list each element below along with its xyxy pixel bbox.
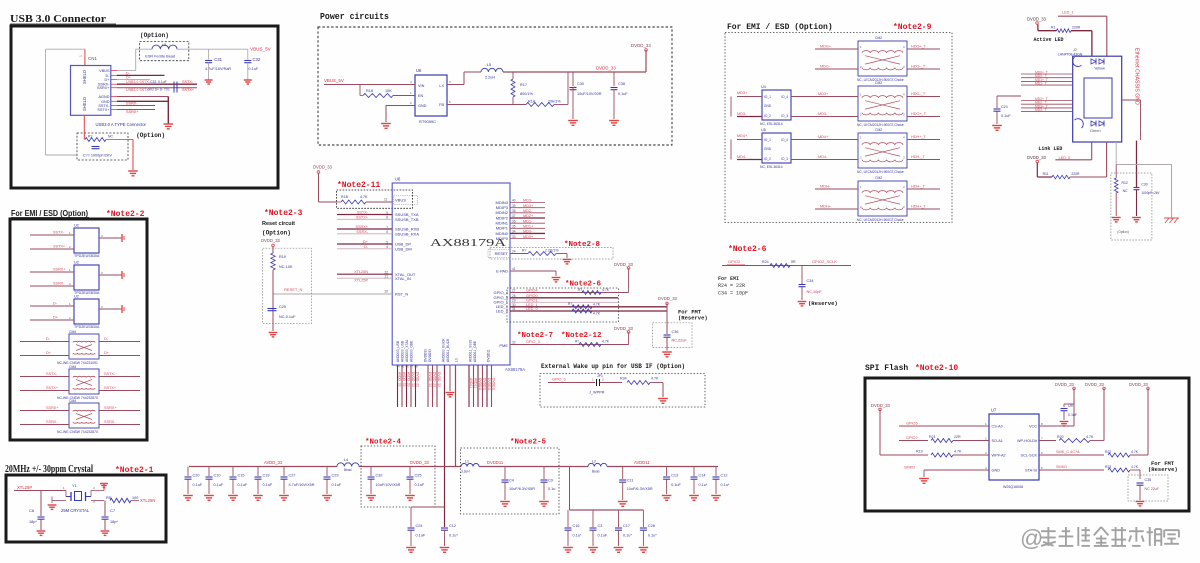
svg-text:C28: C28 [648, 524, 655, 528]
svg-text:SSRX-: SSRX- [46, 420, 58, 424]
svg-text:U7: U7 [991, 408, 997, 413]
svg-text:VBUS_5V: VBUS_5V [324, 78, 344, 83]
svg-text:DVDD_33: DVDD_33 [658, 296, 678, 301]
svg-text:IO_2: IO_2 [764, 157, 771, 161]
svg-text:SSTX-: SSTX- [357, 211, 369, 215]
svg-text:MD1+: MD1+ [523, 225, 534, 229]
svg-text:For EMI / ESD (Option): For EMI / ESD (Option) [11, 209, 88, 218]
svg-text:4.7K: 4.7K [593, 312, 601, 316]
svg-text:D+: D+ [46, 351, 52, 355]
svg-text:RESET: RESET [495, 251, 509, 256]
svg-text:AVD11: AVD11 [474, 378, 478, 388]
svg-text:SSTX-: SSTX- [53, 231, 65, 235]
svg-text:(Reserve): (Reserve) [808, 300, 838, 307]
svg-text:39: 39 [512, 204, 516, 208]
svg-text:D+: D+ [363, 240, 369, 244]
svg-text:U4: U4 [761, 85, 766, 89]
svg-text:(Reserve): (Reserve) [1148, 466, 1178, 473]
svg-text:R18: R18 [366, 89, 373, 93]
svg-text:L2: L2 [592, 460, 596, 464]
svg-text:0.1uF: 0.1uF [671, 483, 681, 487]
svg-text:MDH+: MDH+ [820, 205, 832, 209]
svg-text:R?: R? [568, 302, 572, 306]
svg-text:Bead: Bead [592, 470, 600, 474]
svg-text:U6: U6 [395, 177, 401, 182]
svg-text:0.1uF: 0.1uF [1068, 413, 1078, 417]
svg-text:C4: C4 [509, 479, 514, 483]
svg-text:*Note2-9: *Note2-9 [893, 23, 932, 32]
svg-text:47: 47 [410, 365, 414, 369]
svg-text:5: 5 [386, 240, 388, 244]
svg-text:*Note2-3: *Note2-3 [264, 209, 303, 218]
svg-text:*Note2-10: *Note2-10 [915, 364, 958, 373]
svg-text:U9: U9 [1068, 404, 1073, 408]
svg-text:1: 1 [79, 55, 83, 57]
svg-text:AVDD_33: AVDD_33 [402, 372, 406, 387]
svg-text:C29: C29 [332, 474, 339, 478]
svg-text:0.1uF: 0.1uF [1001, 114, 1011, 118]
svg-text:LED_0: LED_0 [496, 308, 509, 313]
svg-text:C34 = 10pF: C34 = 10pF [718, 291, 748, 297]
svg-text:HDH+_T: HDH+_T [911, 135, 927, 139]
svg-text:9: 9 [386, 211, 388, 215]
svg-text:C11: C11 [627, 479, 634, 483]
svg-text:VBUS_5V: VBUS_5V [250, 47, 272, 52]
svg-text:MD0+: MD0+ [523, 235, 534, 239]
svg-text:7: 7 [386, 225, 388, 229]
svg-text:10uF/10V/X5R: 10uF/10V/X5R [376, 483, 401, 487]
svg-text:MD3+: MD3+ [523, 204, 534, 208]
svg-text:4.7K: 4.7K [954, 450, 962, 454]
svg-text:*Note2-6: *Note2-6 [565, 281, 602, 289]
svg-text:AVDD11: AVDD11 [634, 460, 650, 465]
svg-text:External Wake up pin for USB I: External Wake up pin for USB IF (Option) [541, 363, 685, 370]
svg-text:46: 46 [406, 365, 410, 369]
svg-text:SMK_C 4C?A: SMK_C 4C?A [1056, 450, 1080, 454]
svg-text:DVDD11: DVDD11 [492, 378, 496, 391]
svg-text:VCC: VCC [1029, 425, 1037, 429]
svg-text:Bead: Bead [344, 468, 352, 472]
svg-text:44: 44 [397, 365, 401, 369]
svg-text:SSRX+: SSRX+ [126, 110, 139, 114]
svg-text:C32: C32 [376, 474, 383, 478]
svg-text:LX: LX [439, 84, 444, 88]
svg-text:R20: R20 [1057, 435, 1064, 439]
svg-text:DVDD_33: DVDD_33 [614, 262, 634, 267]
svg-text:IO_2: IO_2 [764, 114, 771, 118]
svg-text:18p*: 18p* [29, 520, 37, 524]
svg-text:C34: C34 [807, 279, 814, 283]
svg-text:MD3-_T: MD3-_T [1035, 108, 1047, 112]
svg-text:W25Q16008: W25Q16008 [1003, 485, 1023, 489]
svg-text:32: 32 [512, 341, 516, 345]
svg-text:FB: FB [439, 103, 444, 107]
svg-text:D+: D+ [126, 75, 131, 79]
svg-text:C7: C7 [110, 508, 116, 513]
svg-text:R17: R17 [520, 83, 527, 87]
svg-text:GPIO_4: GPIO_4 [494, 290, 509, 295]
svg-text:SSTX-: SSTX- [46, 372, 58, 376]
svg-text:R?: R? [578, 288, 582, 292]
svg-text:DVDD_33: DVDD_33 [871, 403, 891, 408]
svg-text:(Option): (Option) [262, 230, 291, 237]
svg-text:IO_1: IO_1 [764, 95, 771, 99]
svg-text:NC 22uF: NC 22uF [1145, 487, 1160, 491]
svg-text:SSTX-: SSTX- [182, 80, 194, 84]
svg-text:IO_4: IO_4 [781, 95, 788, 99]
svg-text:MD4+: MD4+ [737, 134, 748, 138]
svg-text:21: 21 [384, 275, 388, 279]
svg-text:DVDD11: DVDD11 [487, 349, 491, 362]
svg-text:SSTX+: SSTX+ [46, 386, 59, 390]
svg-text:@: @ [1020, 525, 1043, 551]
svg-text:R24: R24 [762, 260, 769, 264]
svg-text:XTL25N: XTL25N [140, 498, 155, 503]
svg-text:CM2: CM2 [875, 36, 882, 40]
svg-text:4.7K: 4.7K [1131, 465, 1139, 469]
svg-text:NC,10pF: NC,10pF [807, 290, 823, 294]
svg-text:*Note2-4: *Note2-4 [365, 439, 402, 447]
svg-text:U8: U8 [416, 68, 422, 73]
svg-text:DVDD_33: DVDD_33 [428, 372, 432, 387]
svg-text:AVDD11_SS33: AVDD11_SS33 [469, 340, 473, 362]
svg-text:4: 4 [386, 245, 388, 249]
svg-text:AVDD11_BUCK: AVDD11_BUCK [446, 338, 450, 362]
svg-text:MD3+: MD3+ [737, 91, 748, 95]
svg-text:48: 48 [415, 365, 419, 369]
svg-text:C32: C32 [253, 57, 261, 62]
svg-text:0.1uF: 0.1uF [618, 92, 628, 96]
svg-text:SHELD: SHELD [82, 97, 87, 111]
svg-text:HDH+_T: HDH+_T [911, 205, 927, 209]
svg-text:4.7K: 4.7K [593, 303, 601, 307]
svg-text:220R: 220R [1071, 172, 1080, 176]
svg-text:CM4: CM4 [69, 365, 76, 369]
svg-text:MD4+: MD4+ [818, 135, 829, 139]
svg-text:IO_1: IO_1 [764, 138, 771, 142]
svg-text:1000pF=2kV: 1000pF=2kV [1141, 191, 1160, 195]
svg-text:For EMI: For EMI [718, 276, 739, 282]
svg-text:U2: U2 [74, 261, 79, 265]
svg-text:MD3-: MD3- [818, 112, 828, 116]
svg-text:DVDD_33: DVDD_33 [410, 460, 430, 465]
svg-text:41: 41 [512, 267, 516, 271]
svg-text:37: 37 [512, 214, 516, 218]
svg-text:IO_4: IO_4 [781, 138, 788, 142]
svg-text:0.1uF: 0.1uF [193, 483, 203, 487]
svg-text:C36: C36 [672, 330, 679, 334]
svg-text:34: 34 [512, 230, 516, 234]
svg-text:NC, LECM2012H-900GT,Choke: NC, LECM2012H-900GT,Choke [857, 123, 904, 127]
svg-text:C25: C25 [415, 474, 422, 478]
svg-text:MDH-: MDH- [820, 185, 831, 189]
svg-text:Ethernet CHASSIS GND: Ethernet CHASSIS GND [1134, 48, 1140, 105]
svg-text:R1: R1 [1051, 25, 1055, 29]
svg-text:SSUSB_RXA: SSUSB_RXA [395, 231, 419, 236]
svg-text:C30: C30 [577, 82, 584, 86]
svg-text:3.3uH: 3.3uH [461, 470, 470, 474]
svg-text:C10: C10 [214, 474, 221, 478]
svg-text:WP#-A2: WP#-A2 [992, 454, 1006, 458]
svg-text:SSRX+: SSRX+ [104, 406, 117, 410]
svg-text:C3: C3 [598, 524, 603, 528]
svg-text:GPIO_0: GPIO_0 [552, 378, 566, 382]
svg-text:SSRX-: SSRX- [53, 282, 65, 286]
svg-text:DVDD_33: DVDD_33 [313, 165, 333, 170]
svg-text:CM4: CM4 [69, 399, 76, 403]
svg-text:MD1-: MD1- [523, 219, 533, 223]
svg-text:MD1-_T: MD1-_T [1035, 82, 1047, 86]
svg-text:10uF/10V/20R: 10uF/10V/20R [577, 92, 602, 96]
svg-text:HDG-_T: HDG-_T [911, 65, 926, 69]
svg-text:Yellow: Yellow [1094, 67, 1105, 71]
svg-text:CS-A0: CS-A0 [992, 425, 1003, 429]
svg-text:0.1u*: 0.1u* [573, 534, 582, 538]
svg-text:DVDD11: DVDD11 [478, 378, 482, 391]
svg-text:10uF/6.3V/X5R: 10uF/6.3V/X5R [627, 487, 653, 491]
svg-text:DVDD11: DVDD11 [483, 378, 487, 391]
svg-text:AVDD_33: AVDD_33 [264, 460, 283, 465]
svg-text:R22: R22 [1105, 450, 1111, 454]
svg-text:NC,22uF: NC,22uF [672, 339, 688, 343]
svg-text:C35: C35 [1145, 478, 1152, 482]
svg-text:DVDD_33: DVDD_33 [631, 43, 651, 48]
svg-text:11: 11 [384, 198, 388, 202]
svg-text:DVDD_33: DVDD_33 [1085, 382, 1105, 387]
svg-text:PME: PME [499, 343, 508, 348]
svg-text:C19: C19 [263, 474, 270, 478]
svg-text:C13: C13 [671, 474, 678, 478]
svg-text:0.1uF: 0.1uF [263, 483, 273, 487]
svg-text:4.7K: 4.7K [360, 195, 368, 199]
svg-text:HDG+_T: HDG+_T [911, 112, 927, 116]
svg-text:C33: C33 [150, 80, 156, 84]
svg-text:SSUSB_TXB: SSUSB_TXB [395, 217, 419, 222]
svg-text:SO-A1: SO-A1 [992, 439, 1003, 443]
svg-text:TX2 D+ D- TX1: TX2 D+ D- TX1 [148, 88, 170, 92]
svg-text:40: 40 [512, 199, 516, 203]
svg-text:NC-10K: NC-10K [279, 265, 293, 269]
svg-text:L3: L3 [162, 42, 167, 47]
svg-text:GND: GND [418, 104, 427, 108]
svg-text:XTAL_IN: XTAL_IN [395, 276, 411, 281]
svg-text:GPIO_3: GPIO_3 [526, 340, 540, 344]
svg-text:USB3.0 A TYPE Connector: USB3.0 A TYPE Connector [96, 122, 147, 127]
svg-text:Power circuits: Power circuits [320, 11, 389, 22]
svg-text:ESR Ferrite Bead: ESR Ferrite Bead [145, 55, 175, 59]
svg-text:C12: C12 [721, 474, 728, 478]
svg-text:L4: L4 [344, 458, 348, 462]
svg-text:RESET_N: RESET_N [284, 287, 303, 292]
svg-text:C6: C6 [29, 508, 35, 513]
svg-text:C20: C20 [193, 474, 200, 478]
svg-text:HDG+_T: HDG+_T [911, 45, 927, 49]
svg-text:R24 = 22R: R24 = 22R [718, 283, 745, 289]
svg-text:0.1u*: 0.1u* [721, 483, 730, 487]
svg-text:0.1u: 0.1u [548, 487, 555, 491]
svg-text:0R: 0R [791, 260, 796, 264]
svg-text:4.7K: 4.7K [602, 288, 610, 292]
svg-text:IO_3: IO_3 [781, 157, 788, 161]
svg-text:SSTX+: SSTX+ [53, 245, 66, 249]
svg-text:USB 3.0 Connector: USB 3.0 Connector [10, 14, 106, 25]
svg-text:R23: R23 [1105, 465, 1111, 469]
svg-text:MD3-: MD3- [523, 199, 533, 203]
svg-text:0.1uF: 0.1uF [415, 483, 425, 487]
svg-text:(Option): (Option) [136, 132, 165, 139]
svg-text:SMKD: SMKD [904, 466, 915, 470]
svg-text:STA-SI: STA-SI [1025, 469, 1037, 473]
svg-text:100: 100 [132, 496, 138, 500]
svg-text:RST_N: RST_N [395, 292, 408, 297]
svg-text:For EMI / ESD (Option): For EMI / ESD (Option) [727, 23, 833, 32]
svg-text:NC: NC [1123, 189, 1128, 193]
svg-text:MD2+: MD2+ [523, 214, 534, 218]
svg-text:36: 36 [512, 219, 516, 223]
svg-text:GND: GND [764, 147, 772, 151]
svg-text:XTL25N: XTL25N [354, 270, 368, 274]
svg-text:MDG-: MDG- [820, 65, 831, 69]
svg-text:HDH-_T: HDH-_T [911, 155, 926, 159]
svg-text:C31: C31 [214, 57, 222, 62]
svg-text:DVDD_33: DVDD_33 [1027, 17, 1047, 22]
svg-text:R?: R? [522, 249, 526, 253]
svg-text:Link LED: Link LED [1038, 146, 1062, 152]
svg-text:AGND: AGND [99, 95, 110, 99]
svg-text:*Note2-12: *Note2-12 [561, 332, 602, 340]
svg-text:20MHz +/- 30ppm Crystal: 20MHz +/- 30ppm Crystal [5, 464, 93, 475]
svg-text:C16: C16 [573, 524, 580, 528]
svg-text:6: 6 [386, 230, 388, 234]
svg-text:DVDD_33: DVDD_33 [1027, 155, 1047, 160]
svg-text:CN1: CN1 [88, 56, 97, 61]
svg-text:GPIO5: GPIO5 [906, 422, 918, 426]
svg-text:U5: U5 [761, 128, 766, 132]
svg-text:SMKD: SMKD [1056, 465, 1067, 469]
svg-text:AVDD33_USB: AVDD33_USB [396, 340, 400, 362]
svg-text:NC-WE-CNSW 744232870: NC-WE-CNSW 744232870 [57, 430, 98, 434]
svg-text:0.1u*: 0.1u* [648, 534, 657, 538]
svg-text:C29: C29 [279, 305, 286, 309]
svg-text:0.1u*: 0.1u* [699, 483, 708, 487]
svg-text:AVDD33_OBE: AVDD33_OBE [410, 340, 414, 362]
svg-text:RT9059C: RT9059C [419, 119, 436, 124]
svg-text:DVDD33: DVDD33 [428, 349, 432, 362]
svg-text:VBUS: VBUS [99, 69, 110, 73]
svg-text:0.1u*: 0.1u* [623, 534, 632, 538]
svg-text:GPIO2: GPIO2 [728, 259, 741, 264]
svg-text:(Reserve): (Reserve) [678, 314, 708, 321]
svg-text:DVDD11: DVDD11 [487, 460, 504, 465]
svg-text:XTL25P: XTL25P [354, 279, 368, 283]
svg-text:C38: C38 [618, 82, 625, 86]
svg-text:0.1uF: 0.1uF [598, 534, 608, 538]
svg-text:XTL25P: XTL25P [17, 485, 32, 490]
svg-text:NC-WE-CNSW 744232870: NC-WE-CNSW 744232870 [57, 396, 98, 400]
svg-text:0.1uF: 0.1uF [158, 80, 167, 84]
svg-text:SPI Flash: SPI Flash [865, 364, 908, 373]
svg-text:4.7K: 4.7K [651, 377, 659, 381]
svg-text:SSRX+: SSRX+ [97, 86, 110, 90]
svg-text:220R: 220R [1072, 25, 1081, 29]
svg-text:J_WPPR: J_WPPR [589, 391, 605, 395]
svg-text:DVDD_33: DVDD_33 [1129, 382, 1149, 387]
svg-text:C14: C14 [699, 474, 706, 478]
svg-text:MD2-: MD2- [523, 209, 533, 213]
svg-text:22R: 22R [954, 435, 961, 439]
svg-text:SSTX+: SSTX+ [182, 88, 195, 92]
svg-text:MD4-: MD4- [737, 155, 747, 159]
svg-text:MD3-: MD3- [737, 112, 747, 116]
svg-text:*Note2-6: *Note2-6 [728, 245, 767, 254]
svg-text:L1: L1 [465, 460, 469, 464]
svg-text:4.7K: 4.7K [1131, 450, 1139, 454]
svg-text:CM2: CM2 [875, 176, 882, 180]
svg-text:C30: C30 [1141, 183, 1147, 187]
svg-text:C17: C17 [623, 524, 630, 528]
svg-text:IO_3: IO_3 [781, 114, 788, 118]
svg-text:AVDD33_BUCK: AVDD33_BUCK [442, 338, 446, 362]
svg-text:NC, ESL36314: NC, ESL36314 [760, 122, 783, 126]
svg-text:SSRX-: SSRX- [104, 420, 116, 424]
svg-text:R1B: R1B [341, 195, 349, 199]
svg-text:45: 45 [401, 365, 405, 369]
svg-text:R19: R19 [916, 450, 923, 454]
svg-text:DVDD_33: DVDD_33 [1055, 382, 1075, 387]
svg-text:MD4-: MD4- [818, 155, 828, 159]
svg-text:0.1uF: 0.1uF [416, 534, 426, 538]
svg-text:LED_0: LED_0 [1059, 156, 1071, 160]
svg-text:SSTX-: SSTX- [104, 372, 116, 376]
svg-text:24: 24 [512, 250, 516, 254]
svg-text:0.1uF: 0.1uF [214, 483, 224, 487]
svg-text:NC, LECM2012H-900GT,Choke: NC, LECM2012H-900GT,Choke [857, 170, 904, 174]
svg-text:HDG-_T: HDG-_T [911, 92, 926, 96]
svg-text:AVDD_33: AVDD_33 [398, 372, 402, 387]
svg-text:R?: R? [575, 340, 579, 344]
svg-text:DVDD11: DVDD11 [487, 378, 491, 391]
svg-text:MD0-: MD0- [523, 230, 533, 234]
svg-text:SSRX+: SSRX+ [53, 268, 66, 272]
svg-text:U2: U2 [74, 295, 79, 299]
svg-text:R12: R12 [1122, 181, 1128, 185]
svg-text:NC, LECM2012H-900GT,Choke: NC, LECM2012H-900GT,Choke [857, 218, 904, 222]
svg-text:CM4: CM4 [69, 330, 76, 334]
svg-text:SSRX-: SSRX- [126, 102, 138, 106]
svg-text:0.1u*: 0.1u* [449, 534, 458, 538]
svg-text:Reset circuit: Reset circuit [262, 221, 295, 227]
svg-text:DVDD_33: DVDD_33 [596, 66, 616, 71]
svg-text:EN: EN [418, 94, 424, 98]
svg-text:DVDD_33: DVDD_33 [437, 372, 441, 387]
svg-text:0.1uF: 0.1uF [238, 483, 248, 487]
svg-text:L3: L3 [455, 358, 459, 362]
svg-text:8: 8 [386, 216, 388, 220]
svg-text:2.2uH: 2.2uH [485, 76, 495, 80]
svg-text:SCL-SCK: SCL-SCK [1021, 454, 1038, 458]
svg-text:C9: C9 [548, 479, 553, 483]
svg-text:D+: D+ [53, 316, 59, 320]
svg-text:AX88179A: AX88179A [505, 367, 525, 372]
svg-text:D+: D+ [105, 78, 111, 82]
svg-text:CM2: CM2 [875, 81, 882, 85]
svg-text:LED_1: LED_1 [1062, 11, 1074, 15]
svg-text:U2: U2 [74, 224, 79, 228]
svg-text:*Note2-7: *Note2-7 [517, 332, 553, 340]
svg-text:J2: J2 [1073, 48, 1077, 52]
svg-text:DVDD_33: DVDD_33 [614, 326, 634, 331]
svg-text:SSTX+: SSTX+ [356, 216, 369, 220]
